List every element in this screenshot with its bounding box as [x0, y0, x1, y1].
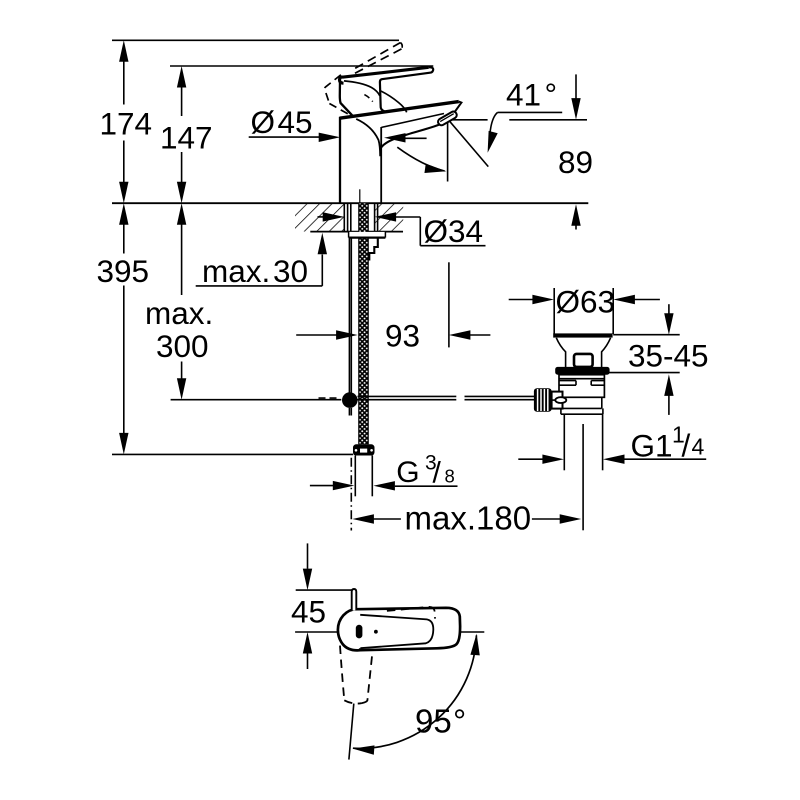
dashed spout top view right [362, 652, 373, 703]
dimension 147 vertical line [177, 66, 186, 203]
dashed raised handle underside [352, 49, 402, 75]
41deg angle arc left with arrow [397, 147, 447, 176]
svg-text:Ø: Ø [251, 104, 276, 140]
svg-text:max.: max. [202, 253, 270, 289]
dimension 174 vertical line [119, 40, 128, 203]
svg-text:35-45: 35-45 [628, 337, 709, 373]
dashed spout top view left [340, 646, 344, 701]
flexible supply hose braided [359, 203, 368, 444]
pop-up pull rod vertical [349, 238, 351, 416]
dimension D45 leader right [384, 133, 427, 142]
dashed rotated dome bottom [329, 104, 352, 117]
hose connector tube [355, 456, 372, 497]
rod center dash left of ball [319, 397, 337, 399]
svg-text:147: 147 [160, 120, 213, 156]
dome seam curve [344, 81, 380, 96]
dimension 93 [296, 330, 490, 339]
G1 dimension arrows [518, 455, 706, 464]
drain pull knob square [574, 354, 593, 367]
dimension 45 bottom arrow [303, 632, 312, 669]
45 top ref line [296, 589, 353, 591]
handle blade heavy top [339, 67, 428, 83]
label G1 1/4 [631, 421, 705, 463]
aerator tilted [437, 110, 458, 126]
svg-text:4: 4 [692, 434, 705, 460]
handle bottom tick [359, 648, 361, 650]
pop-up rod horizontal [358, 396, 535, 399]
D63 dimension arrows [509, 295, 660, 304]
41deg label underline [498, 111, 563, 113]
95deg leg line [349, 704, 354, 760]
svg-text:Ø63: Ø63 [556, 284, 616, 320]
svg-text:93: 93 [385, 317, 420, 353]
dimension 45 top arrow [303, 543, 312, 590]
svg-text:8: 8 [445, 465, 455, 486]
spout tip end face [454, 102, 462, 114]
svg-text:G: G [396, 456, 419, 489]
deck hatching [290, 203, 410, 231]
41deg horizontal ref line [449, 119, 587, 121]
41deg vertical leg [447, 121, 449, 182]
handle top view outer outline [338, 608, 460, 651]
drain body section2 [562, 397, 602, 408]
93 extension line [448, 262, 450, 347]
spout underside curve [381, 124, 440, 147]
escutcheon plate under deck [349, 232, 386, 238]
handle dome left edge [340, 79, 353, 117]
spout rear top edge [381, 114, 444, 128]
knurled rod knob [534, 388, 552, 411]
svg-text:max.: max. [145, 295, 213, 331]
dimension ref line top (174 level) [112, 39, 399, 41]
svg-text:45: 45 [291, 594, 326, 630]
mounting bracket steps [368, 238, 378, 260]
dashed rotated handle top view [387, 607, 435, 619]
D34 leader box [395, 217, 485, 246]
svg-text:max.180: max.180 [405, 499, 532, 536]
svg-text:395: 395 [97, 253, 150, 289]
countertop deck top line [112, 202, 588, 204]
spout top heavy line [340, 102, 459, 119]
dimension ref line 147 level [170, 65, 433, 67]
svg-text:°: ° [453, 702, 466, 739]
faucet shank wall lines in deck [344, 203, 377, 231]
dimension 395 vertical line [119, 203, 128, 454]
faucet body right edge [380, 127, 382, 203]
dimension max300 vertical line [177, 203, 186, 400]
faucet body left edge [339, 117, 341, 203]
inner body arc [356, 119, 380, 156]
drain centerline [582, 424, 584, 530]
drain valve body [559, 375, 604, 398]
D34 arrows at deck [318, 212, 397, 221]
ball joint [342, 392, 358, 408]
label 41 deg [506, 77, 557, 113]
dimension 89 top arrow [571, 74, 580, 119]
handle top view inner contour [360, 615, 433, 648]
dashed rotated dome outline [325, 75, 341, 104]
hose end nut [353, 444, 375, 455]
svg-text:/: / [682, 428, 691, 464]
svg-text:45: 45 [278, 104, 313, 140]
ref line max300 bottom [171, 399, 342, 401]
dashed raised handle blade top [355, 43, 400, 69]
drain flange [553, 288, 613, 338]
dimension max30 label [202, 253, 308, 289]
svg-text:41: 41 [506, 77, 541, 113]
label max300 [145, 295, 213, 364]
handle small dot [374, 630, 378, 634]
G38 dimension arrows [310, 481, 458, 491]
svg-text:/: / [433, 456, 442, 489]
label G 3/8 [396, 452, 454, 490]
95deg arc [352, 633, 481, 755]
dimension D45 leader left [249, 133, 341, 142]
label 95deg [415, 702, 466, 739]
drain tailpipe [564, 414, 602, 470]
svg-text:Ø34: Ø34 [424, 213, 484, 249]
dimension max180 [352, 514, 581, 523]
handle blade tip and underside [380, 67, 433, 112]
dashed spout top view bottom [344, 700, 362, 703]
svg-text:30: 30 [273, 253, 308, 289]
41deg leader arc with arrow [483, 112, 498, 154]
drain collar nut [561, 408, 603, 414]
lever tab top view [352, 589, 357, 611]
dimension 35-45 [605, 304, 680, 415]
svg-text:G1: G1 [631, 428, 673, 464]
svg-text:°: ° [545, 77, 558, 113]
svg-text:89: 89 [558, 144, 593, 180]
max30 underline and arrow [196, 233, 327, 286]
body centerline above deck [359, 189, 361, 203]
handle pivot slot [356, 625, 363, 639]
countertop deck bottom line [310, 231, 403, 233]
drain seal washer black band [555, 367, 609, 375]
label diameter 45 [251, 104, 313, 140]
drain neck taper [556, 338, 610, 367]
ref line bottom 395 [112, 453, 353, 455]
45 bottom ref centerline [295, 631, 484, 633]
dimension 89 bottom arrow [571, 204, 580, 229]
svg-text:95: 95 [415, 702, 452, 739]
max180 dash-dot extension [350, 458, 352, 531]
svg-text:300: 300 [156, 328, 209, 364]
dashed rotated cartridge seam [364, 95, 372, 102]
dashed raised handle tip [400, 43, 402, 48]
cartridge collar curve [381, 91, 407, 112]
knob attachment piece [550, 392, 566, 409]
41deg diagonal leg [449, 120, 489, 166]
svg-text:174: 174 [100, 106, 153, 142]
